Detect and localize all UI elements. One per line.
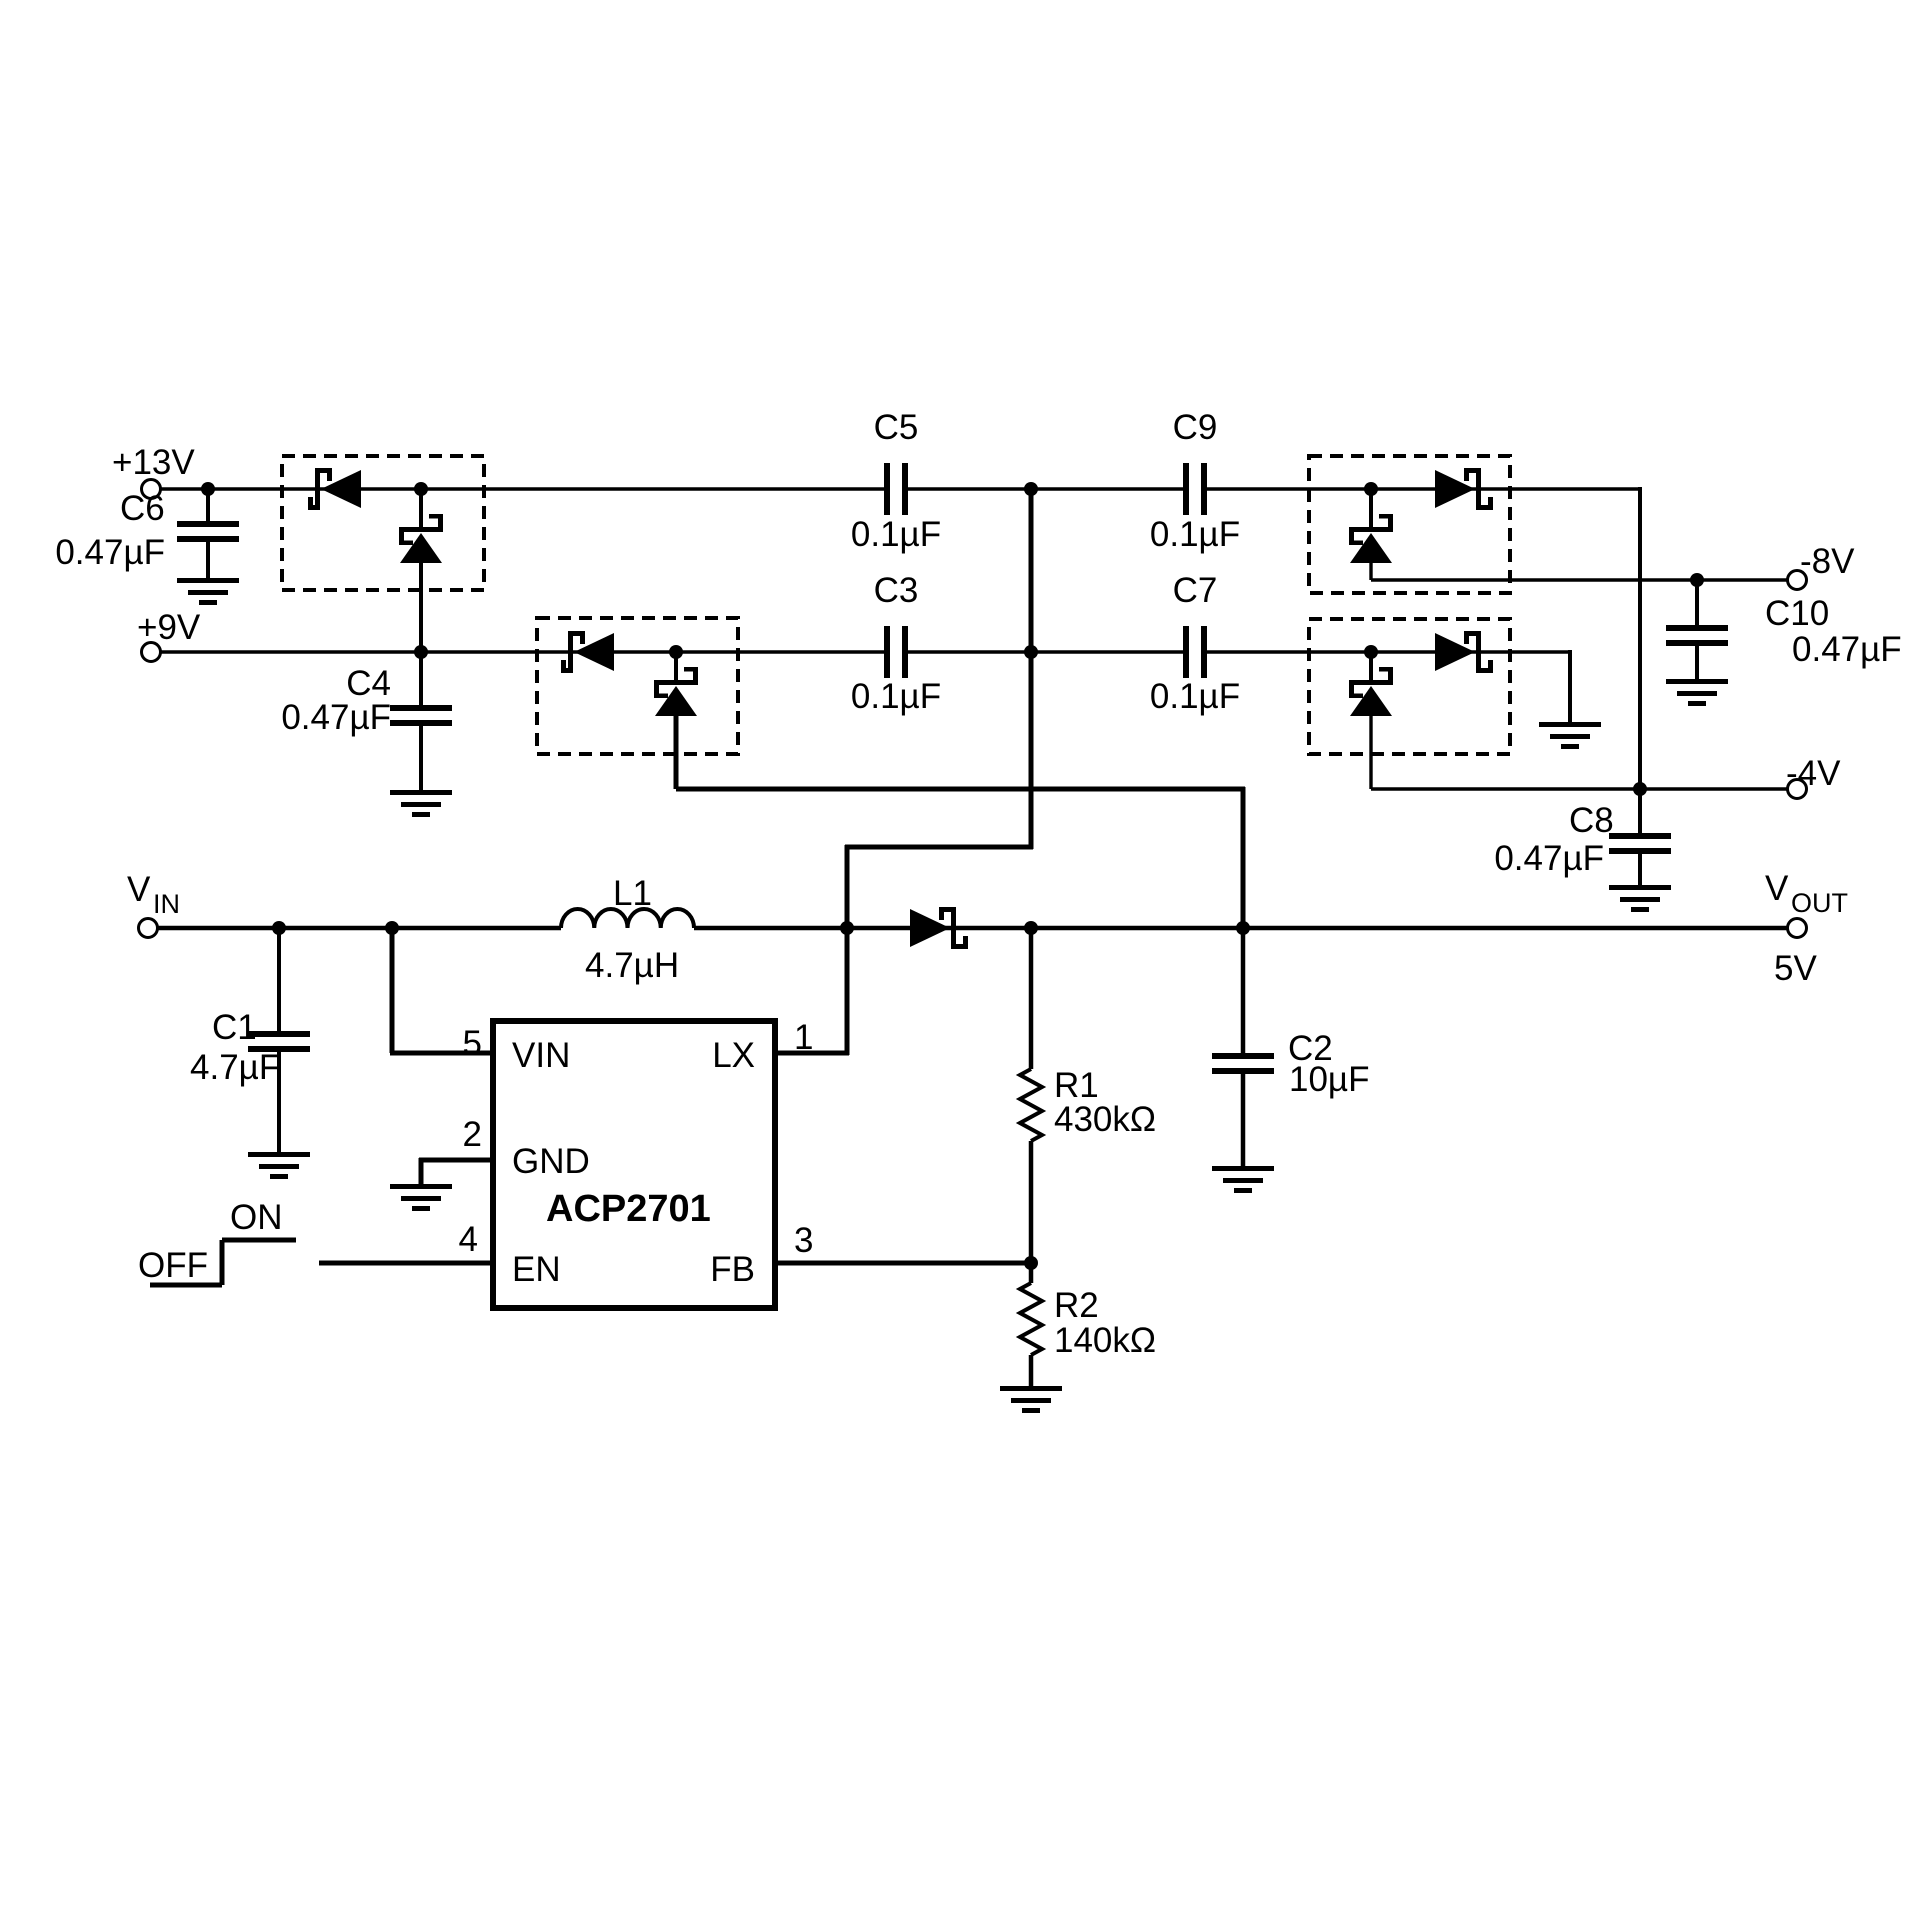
capacitor C6 (177, 521, 239, 542)
label C8 (1569, 801, 1614, 840)
svg-text:R2: R2 (1054, 1286, 1099, 1325)
svg-text:C9: C9 (1173, 408, 1218, 447)
node riser on +9V rail (1024, 645, 1038, 659)
value C1 4.7uF (190, 1048, 280, 1087)
ground C1 (248, 1152, 310, 1179)
svg-text:0.47µF: 0.47µF (281, 698, 391, 737)
capacitor C5 (884, 463, 908, 515)
value C5 0.1uF (851, 515, 941, 554)
op-amp U1 ACP2701 box (493, 1021, 775, 1308)
capacitor C7 (1183, 626, 1207, 678)
pin name FB (710, 1250, 755, 1289)
label 5V (1774, 949, 1817, 988)
value L1 4.7uH (585, 946, 679, 985)
schottky diode D1a horizontal (stage1) (308, 468, 361, 510)
node C10 tap (1690, 573, 1704, 587)
svg-text:140kΩ: 140kΩ (1054, 1321, 1156, 1360)
schottky diode D3 main rail (910, 907, 968, 949)
node VIN pin riser (385, 921, 399, 935)
label -4V (1786, 754, 1841, 793)
label +9V (137, 608, 201, 647)
node C5-C9 junction (1024, 482, 1038, 496)
pin name VIN (512, 1036, 570, 1075)
wire FB pin (775, 1261, 1031, 1266)
value C3 0.1uF (851, 677, 941, 716)
svg-text:4.7µH: 4.7µH (585, 946, 679, 985)
svg-text:0.47µF: 0.47µF (55, 533, 165, 572)
value C10 0.47uF (1792, 630, 1902, 669)
svg-text:V: V (1765, 869, 1789, 908)
label ON (230, 1198, 283, 1237)
dashed box charge pump stage 2 (lower left) (537, 618, 738, 754)
wire -8V rail (1371, 561, 1787, 580)
capacitor C8 (1609, 833, 1671, 854)
wire D5 top-right vertical diode top lead (1369, 489, 1373, 527)
wire C10 leads (1695, 580, 1699, 679)
svg-text:ACP2701: ACP2701 (546, 1188, 711, 1230)
terminal +9V (142, 643, 161, 662)
capacitor C10 (1666, 625, 1728, 646)
wire -4V rail (1371, 714, 1787, 789)
svg-text:5V: 5V (1774, 949, 1817, 988)
svg-text:4.7µF: 4.7µF (190, 1048, 280, 1087)
svg-text:0.1µF: 0.1µF (1150, 515, 1240, 554)
wire top rail right of C9 to corner (1206, 487, 1640, 490)
svg-text:C1: C1 (212, 1008, 257, 1047)
value C6 0.47uF (55, 533, 165, 572)
svg-text:+13V: +13V (112, 443, 195, 482)
label C1 (212, 1008, 257, 1047)
svg-text:OUT: OUT (1791, 888, 1848, 918)
terminal -8V (1788, 571, 1807, 590)
wire main rail Vin to L1 (158, 926, 561, 931)
value R1 430k (1054, 1100, 1156, 1139)
capacitor C4 (390, 705, 452, 726)
node D5 top (1364, 482, 1378, 496)
svg-text:+9V: +9V (137, 608, 201, 647)
schottky diode D2b vertical (stage2) (654, 667, 698, 716)
label C9 (1173, 408, 1218, 447)
schottky diode D2a horizontal (stage2) (561, 631, 614, 673)
svg-text:C7: C7 (1173, 571, 1218, 610)
wire x1243 drop to Vout rail (1241, 787, 1246, 928)
label VIN input (127, 870, 180, 919)
terminal VIN (139, 919, 158, 938)
schottky diode D5b vertical (stage3) (1349, 514, 1393, 563)
wire top rail between C5 and C9 (907, 487, 1184, 490)
terminal -4V (1788, 780, 1807, 799)
svg-text:C10: C10 (1765, 594, 1829, 633)
svg-text:IN: IN (153, 889, 180, 919)
wire vertical right corner x1640 down to -4V rail (1638, 487, 1642, 789)
svg-text:V: V (127, 870, 151, 909)
wire D4 cathode drop to ground (1568, 650, 1572, 722)
wire C4 leads (419, 652, 423, 790)
svg-text:OFF: OFF (138, 1246, 208, 1285)
dashed box charge pump stage 1 (top left) (282, 456, 484, 590)
node C1 tap (272, 921, 286, 935)
svg-text:0.47µF: 0.47µF (1792, 630, 1902, 669)
dashed box charge pump stage 3 (top right) (1309, 456, 1510, 593)
value R2 140k (1054, 1321, 1156, 1360)
ON/OFF step signal (150, 1240, 296, 1285)
svg-text:-4V: -4V (1786, 754, 1841, 793)
wire corner segment y847 (845, 845, 1033, 850)
node C2 tap (1236, 921, 1250, 935)
pin name EN (512, 1250, 561, 1289)
schottky diode D5a horizontal (stage3) (1435, 468, 1493, 510)
label C5 (874, 408, 919, 447)
svg-text:0.47µF: 0.47µF (1494, 839, 1604, 878)
schottky diode D1b vertical (stage1) (399, 514, 443, 563)
svg-text:LX: LX (712, 1036, 755, 1075)
pin 3 (794, 1221, 813, 1260)
svg-text:0.1µF: 0.1µF (851, 515, 941, 554)
ground C2 (1212, 1166, 1274, 1193)
svg-text:0.1µF: 0.1µF (851, 677, 941, 716)
wire C2 leads (1241, 928, 1246, 1166)
svg-text:C5: C5 (874, 408, 919, 447)
label C3 (874, 571, 919, 610)
label C7 (1173, 571, 1218, 610)
label OFF (138, 1246, 208, 1285)
wire top rail +13V row left (161, 487, 885, 490)
ground R2 (1000, 1386, 1062, 1413)
svg-text:EN: EN (512, 1250, 561, 1289)
svg-text:ON: ON (230, 1198, 283, 1237)
wire VIN pin riser (390, 928, 493, 1053)
svg-text:10µF: 10µF (1289, 1060, 1369, 1099)
wire GND pin (419, 1158, 493, 1184)
node FB divider (1024, 1256, 1038, 1270)
ground C10 (1666, 679, 1728, 706)
capacitor C1 (248, 1031, 310, 1052)
label +13V (112, 443, 195, 482)
schottky diode D7a horizontal (stage4) (1435, 631, 1493, 673)
ground C8 (1609, 885, 1671, 912)
capacitor C9 (1183, 463, 1207, 515)
svg-text:5: 5 (463, 1024, 482, 1063)
value C7 0.1uF (1150, 677, 1240, 716)
label C2 (1288, 1029, 1333, 1068)
wire C1 leads (277, 928, 281, 1152)
capacitor C3 (884, 626, 908, 678)
pin 4 (459, 1220, 478, 1259)
svg-text:C8: C8 (1569, 801, 1614, 840)
pin name LX (712, 1036, 755, 1075)
wire R2 leads (1029, 1263, 1034, 1386)
svg-text:FB: FB (710, 1250, 755, 1289)
ground GND pin (390, 1184, 452, 1211)
label VOUT (1765, 869, 1848, 918)
wire riser x847 to main rail (845, 845, 850, 928)
wire +9V rail right of C7 through D4 (1206, 650, 1570, 653)
value C9 0.1uF (1150, 515, 1240, 554)
wire D1 top vertical diode leads (419, 489, 423, 652)
resistor R1 (1020, 1069, 1042, 1141)
svg-text:3: 3 (794, 1221, 813, 1260)
wire LX pin riser (775, 928, 849, 1055)
svg-text:-8V: -8V (1800, 542, 1855, 581)
svg-text:GND: GND (512, 1142, 590, 1181)
dashed box charge pump stage 4 (lower right) (1309, 619, 1510, 754)
node LX riser (840, 921, 854, 935)
label R2 (1054, 1286, 1099, 1325)
wire C6 leads (206, 489, 210, 578)
svg-text:4: 4 (459, 1220, 478, 1259)
label C4 (346, 664, 391, 703)
node D7 top (1364, 645, 1378, 659)
wire C8 leads (1638, 789, 1642, 885)
svg-text:L1: L1 (613, 874, 652, 913)
wire D7 bottom-right vertical diode top lead (1369, 652, 1373, 680)
node D1 top (414, 482, 428, 496)
capacitor C2 (1212, 1053, 1274, 1074)
value C8 0.47uF (1494, 839, 1604, 878)
svg-text:C6: C6 (120, 489, 165, 528)
svg-text:2: 2 (463, 1115, 482, 1154)
label -8V (1800, 542, 1855, 581)
label C10 (1765, 594, 1829, 633)
wire charge-pump return y789 left segment (676, 714, 1245, 789)
node D2 top (669, 645, 683, 659)
ground C6 (177, 578, 239, 605)
wire main rail L1 to Vout (694, 926, 1787, 931)
node C6 tap (201, 482, 215, 496)
pin 5 (463, 1024, 482, 1063)
value C4 0.47uF (281, 698, 391, 737)
ground stage4 output (1539, 722, 1601, 749)
svg-text:C3: C3 (874, 571, 919, 610)
wire D2 bottom vertical diode top lead (674, 652, 678, 680)
node -4V C8 junction (1633, 782, 1647, 796)
value C2 10uF (1289, 1060, 1369, 1099)
svg-text:1: 1 (794, 1018, 813, 1057)
label ACP2701 (546, 1188, 711, 1230)
wire +9V rail left (161, 650, 885, 653)
schottky diode D7b vertical (stage4) (1349, 667, 1393, 716)
pin 2 (463, 1115, 482, 1154)
node C4 tap (414, 645, 428, 659)
inductor L1 (561, 909, 694, 928)
wire EN pin (319, 1261, 493, 1266)
wire +9V rail between C3 and C7 (907, 650, 1184, 653)
terminal VOUT (1788, 919, 1807, 938)
label R1 (1054, 1066, 1099, 1105)
svg-text:0.1µF: 0.1µF (1150, 677, 1240, 716)
svg-text:VIN: VIN (512, 1036, 570, 1075)
svg-text:430kΩ: 430kΩ (1054, 1100, 1156, 1139)
wire center riser x1031 top rail to corner (1029, 489, 1034, 849)
resistor R2 (1020, 1283, 1042, 1355)
terminal +13V (142, 480, 161, 499)
ground C4 (390, 790, 452, 817)
label L1 (613, 874, 652, 913)
label C6 (120, 489, 165, 528)
node R1 tap (1024, 921, 1038, 935)
pin 1 (794, 1018, 813, 1057)
pin name GND (512, 1142, 590, 1181)
wire R1 leads (1029, 928, 1034, 1263)
